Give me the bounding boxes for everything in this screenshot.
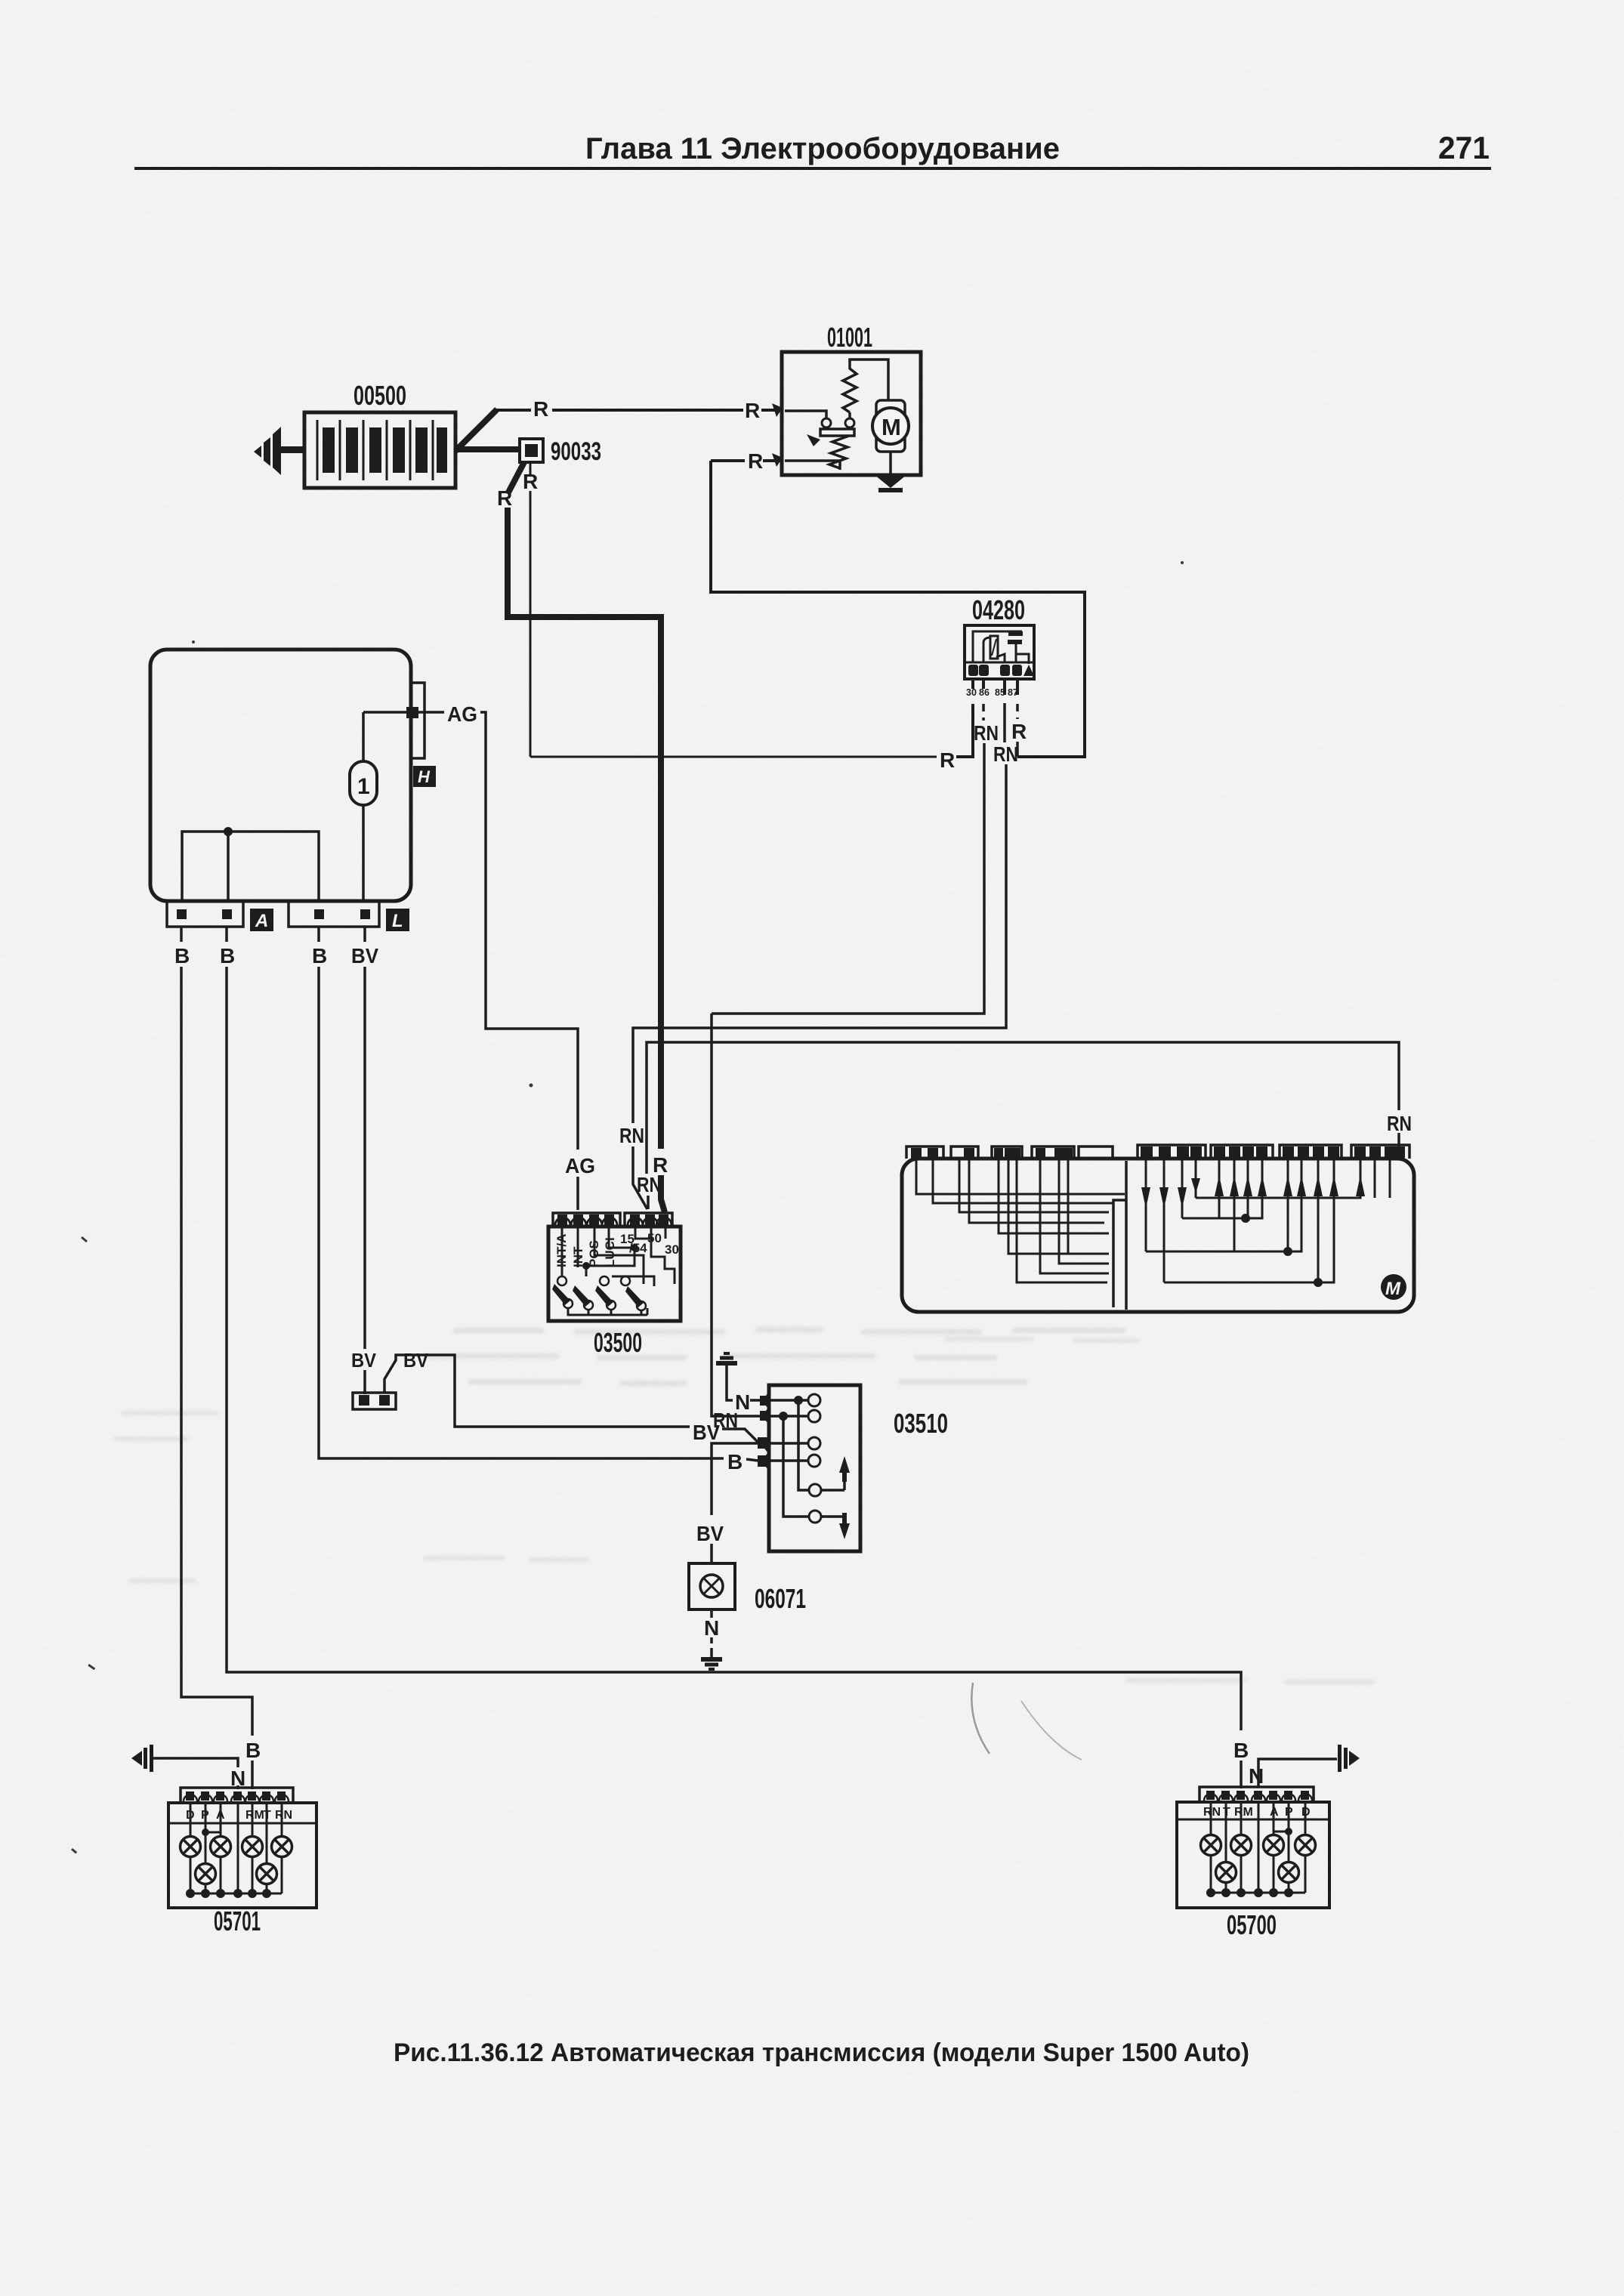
relay 04280 xyxy=(965,625,1034,679)
junction dot 03500 b xyxy=(631,1244,638,1251)
wire BV jumper to 03510 xyxy=(384,1355,690,1427)
svg-text:BV: BV xyxy=(351,944,378,967)
arrows of motor unit pins xyxy=(1141,1175,1365,1208)
armature arrow of 01001 xyxy=(807,434,820,446)
wire thin R from 90033 down xyxy=(529,463,532,474)
ground at 03510 xyxy=(716,1353,737,1373)
lamp T 05701 xyxy=(257,1864,277,1884)
wire B2 pin to label xyxy=(225,927,228,942)
junction dots of motor unit xyxy=(1241,1214,1250,1223)
svg-text:N: N xyxy=(735,1390,750,1414)
lamp D 05700 xyxy=(1295,1835,1316,1856)
pin 01001 upper terminal xyxy=(772,403,783,417)
svg-text:30: 30 xyxy=(966,687,977,698)
inner sub-box of control unit xyxy=(182,832,319,901)
wire ground to N 03510 xyxy=(727,1373,733,1400)
tab H on control unit xyxy=(411,683,425,758)
wire BV into connector xyxy=(363,1370,366,1394)
right half wiring of motor unit xyxy=(1146,1159,1390,1282)
wire motor to ground xyxy=(889,452,892,479)
wire thick diagonal 90033 to R bus xyxy=(508,462,524,492)
wire B2 down and across to 05700 xyxy=(227,967,1241,1730)
svg-text:B: B xyxy=(1233,1739,1249,1762)
connector strip 05701 xyxy=(181,1788,293,1803)
svg-text:AG: AG xyxy=(447,702,477,726)
svg-text:05700: 05700 xyxy=(1227,1909,1277,1940)
resistor bottom to contact xyxy=(848,412,851,418)
wire BV down to connector xyxy=(363,967,366,1349)
lamp P 05701 xyxy=(196,1864,216,1884)
wire RN pin86 of 04280 xyxy=(982,704,985,721)
svg-text:H: H xyxy=(418,767,431,786)
pin AG on box edge xyxy=(406,707,418,718)
svg-text:90033: 90033 xyxy=(551,437,601,466)
connector block 5 of motor unit xyxy=(1079,1146,1113,1159)
svg-text:L: L xyxy=(392,911,403,931)
svg-text:01001: 01001 xyxy=(827,322,872,353)
lamp RN 05700 xyxy=(1201,1835,1221,1856)
page header rule xyxy=(134,167,1491,170)
wire R pin87 of 04280 xyxy=(1016,704,1019,719)
wire diagonal 00500 to R feed xyxy=(455,409,497,451)
wire N below 06071 xyxy=(710,1609,713,1618)
svg-text:BV: BV xyxy=(693,1421,720,1444)
svg-text:87: 87 xyxy=(1008,687,1018,698)
wire AG down to 03500 xyxy=(480,712,578,1150)
left nest wiring of motor unit xyxy=(916,1159,1125,1282)
internal wiring 03500 xyxy=(562,1227,675,1286)
wire RN 03500 to motor unit xyxy=(647,1042,1399,1174)
stray scanner marks xyxy=(71,561,1184,1853)
resistor R inside 01001 xyxy=(843,369,857,412)
connector block 7 of motor unit xyxy=(1211,1145,1273,1159)
lamp D 05701 xyxy=(181,1837,201,1857)
lamp cluster 05700 xyxy=(1177,1802,1329,1908)
svg-text:B: B xyxy=(220,944,235,967)
lamp RM 05700 xyxy=(1231,1835,1252,1856)
svg-text:R: R xyxy=(745,399,760,422)
connector block 6 of motor unit xyxy=(1138,1145,1206,1159)
svg-text:06071: 06071 xyxy=(755,1583,806,1614)
wire R top to 01001 xyxy=(495,409,531,412)
wire R pin87 to loop xyxy=(1016,742,1019,757)
svg-text:85: 85 xyxy=(995,687,1005,698)
junction dot 05700 xyxy=(1285,1828,1292,1835)
indicator oval 1 xyxy=(350,761,377,805)
svg-text:RN: RN xyxy=(619,1124,644,1147)
motor M inside 01001 xyxy=(872,400,909,452)
svg-text:M: M xyxy=(881,414,901,440)
wire BV pin to label xyxy=(363,927,366,942)
bus dots 05701 xyxy=(186,1889,271,1898)
junction dot inner box xyxy=(224,827,233,836)
wire AG into 03500 pin INT xyxy=(576,1177,579,1210)
spring of 01001 xyxy=(829,436,849,468)
svg-text:B: B xyxy=(245,1739,261,1762)
wire oval to BV pin xyxy=(362,805,365,901)
relay coil 04280 xyxy=(990,636,998,659)
connector pads 03510 xyxy=(765,1394,769,1468)
contact circles 03510 xyxy=(808,1394,821,1523)
svg-text:AG: AG xyxy=(565,1154,595,1177)
wire B1 down to 05701 xyxy=(181,967,252,1736)
wire B1 pin to label xyxy=(180,927,183,942)
wire R pin30 of 04280 xyxy=(956,704,973,757)
connector strip left of 03500 xyxy=(553,1213,620,1227)
svg-text:RM: RM xyxy=(245,1809,264,1822)
svg-text:RN: RN xyxy=(1203,1806,1221,1819)
svg-text:86: 86 xyxy=(979,687,990,698)
wire resistor top loop xyxy=(850,360,888,400)
connector strip right of 03500 xyxy=(625,1213,672,1227)
junction dot 03500 xyxy=(582,1262,590,1270)
internal wiring 03510 xyxy=(770,1400,844,1528)
svg-text:1: 1 xyxy=(357,774,370,799)
svg-text:R: R xyxy=(533,397,548,421)
selector arrow 03510 xyxy=(839,1456,850,1539)
connector block 2 of motor unit xyxy=(951,1146,978,1159)
svg-text:R: R xyxy=(940,748,955,772)
connector block 1 of motor unit xyxy=(906,1146,943,1159)
wire BV diagonal into 03510 xyxy=(722,1429,758,1443)
connector strip 05700 xyxy=(1199,1787,1314,1802)
connector block 9 of motor unit xyxy=(1351,1145,1409,1159)
svg-text:RN: RN xyxy=(993,742,1018,766)
wire B into 05700 xyxy=(1240,1761,1243,1788)
transmission motor unit (right) xyxy=(902,1159,1414,1312)
bottom bus 03500 xyxy=(568,1308,647,1315)
wire N into 05701 xyxy=(236,1785,239,1789)
svg-text:A: A xyxy=(255,911,268,931)
wire B into 03510 xyxy=(746,1459,758,1461)
svg-text:271: 271 xyxy=(1438,130,1490,165)
lamp A 05700 xyxy=(1264,1835,1284,1856)
relay contact bars 04280 xyxy=(1008,631,1023,636)
wire N 05700 to ground xyxy=(1257,1767,1260,1787)
paper texture noise xyxy=(0,0,1,1)
svg-text:04280: 04280 xyxy=(972,594,1025,625)
wire RN into 03500 pin 50 xyxy=(633,1146,647,1209)
thermal breaker unit 01001 xyxy=(782,352,921,475)
wire oval to AG xyxy=(362,712,365,761)
svg-text:RM: RM xyxy=(1234,1806,1253,1819)
wire upper R to contact xyxy=(785,411,826,418)
divider of motor unit xyxy=(1113,1161,1126,1310)
motor symbol M of unit xyxy=(1381,1274,1406,1300)
svg-text:M: M xyxy=(1385,1279,1401,1299)
ghost text band 1 xyxy=(423,1327,1125,1386)
label H xyxy=(413,766,436,787)
pin 01001 lower terminal xyxy=(772,453,783,467)
svg-text:RN: RN xyxy=(637,1173,662,1196)
label A xyxy=(250,909,273,931)
wire RN stub into 03500 xyxy=(647,1196,650,1209)
junction dot 03510 N xyxy=(794,1396,803,1405)
scan crease curves xyxy=(971,1683,990,1754)
wire pin2 inner xyxy=(227,832,230,901)
svg-text:03510: 03510 xyxy=(894,1408,948,1439)
switch wedge 2 of 03500 xyxy=(573,1285,591,1307)
wire 01001 lower R to loop xyxy=(711,459,745,462)
wire thick R into 03500 pin 30 xyxy=(661,1175,665,1212)
svg-text:B: B xyxy=(312,944,327,967)
svg-text:B: B xyxy=(727,1450,743,1474)
junction dot 03510 RN xyxy=(779,1412,788,1421)
connector block 8 of motor unit xyxy=(1280,1145,1341,1159)
wire BV into 06071 xyxy=(710,1544,713,1563)
wire RN pin85 of 04280 xyxy=(1003,703,1006,742)
internal wires 05701 xyxy=(190,1803,282,1893)
wire RN pin86 down to 03510 branch xyxy=(712,743,984,1014)
svg-text:R: R xyxy=(497,486,512,510)
fuse box 00500 xyxy=(304,412,455,488)
wire B3 pin to label xyxy=(317,927,320,942)
lamp T 05700 xyxy=(1216,1862,1237,1883)
inline connector BV xyxy=(353,1393,396,1409)
wire ground to N 05701 xyxy=(153,1758,238,1767)
connector A of control unit xyxy=(167,901,243,927)
label L xyxy=(386,909,409,931)
switch wedge 3 of 03500 xyxy=(595,1285,613,1307)
wire AG from control unit xyxy=(363,711,444,714)
svg-text:N: N xyxy=(1249,1764,1264,1788)
lamp RN 05701 xyxy=(272,1837,292,1857)
wire RN into motor unit xyxy=(1397,1133,1400,1151)
wire thick R bus down and right xyxy=(508,508,661,1149)
wire B into 05701 xyxy=(251,1761,254,1789)
warning lamp 06071 xyxy=(689,1563,735,1609)
svg-text:00500: 00500 xyxy=(354,380,406,411)
connector 90033 xyxy=(520,439,543,462)
pads of 03500 xyxy=(557,1214,668,1226)
svg-text:R: R xyxy=(748,449,763,473)
connector L of control unit xyxy=(289,901,379,927)
wire RN pin85 down to 03500 xyxy=(633,764,1006,1123)
lamp cluster 05701 xyxy=(168,1803,316,1908)
svg-text:30: 30 xyxy=(665,1242,679,1257)
svg-text:BV: BV xyxy=(696,1522,724,1545)
ghost text band 2 xyxy=(113,1337,1375,1684)
svg-text:B: B xyxy=(174,944,190,967)
relay pads 04280 xyxy=(968,665,1034,695)
svg-text:RN: RN xyxy=(1387,1112,1412,1135)
connector block 3 of motor unit xyxy=(992,1146,1022,1159)
svg-text:03500: 03500 xyxy=(594,1327,642,1358)
divider line 05700 xyxy=(1177,1819,1329,1821)
battery feed symbol left of 00500 xyxy=(254,427,305,475)
wire B3 down to 03510 xyxy=(319,967,724,1458)
lamp RM 05701 xyxy=(242,1837,263,1857)
wire BV from 03510 to lamp 06071 xyxy=(712,1443,758,1515)
svg-text:R: R xyxy=(1011,720,1027,743)
svg-text:BV: BV xyxy=(351,1349,377,1372)
wire R from 90033 to relay pin30 xyxy=(530,756,937,758)
switch wedge 4 of 03500 xyxy=(625,1286,644,1307)
ground left of 05701 xyxy=(131,1745,153,1772)
wire RN branch to 03510 xyxy=(712,1014,760,1416)
ignition light switch 03500 xyxy=(548,1213,681,1321)
wire N to ground xyxy=(710,1637,713,1649)
svg-text:05701: 05701 xyxy=(214,1906,261,1936)
bus dots 05700 xyxy=(1206,1888,1293,1897)
junction dot 05701 xyxy=(202,1828,209,1836)
contact circles of 01001 switch xyxy=(822,418,831,427)
ground right of 05700 xyxy=(1338,1745,1360,1772)
armature bar of 01001 xyxy=(820,429,854,436)
ground below 06071 xyxy=(701,1649,722,1669)
wire N into 03510 xyxy=(750,1399,760,1402)
svg-text:N: N xyxy=(704,1616,719,1640)
inhibitor switch 03510 xyxy=(769,1385,860,1551)
svg-text:Глава 11 Электрооборудование: Глава 11 Электрооборудование xyxy=(585,132,1060,165)
internal wires 05700 xyxy=(1211,1802,1305,1893)
svg-text:RN: RN xyxy=(275,1809,292,1822)
switch wedge 1 of 03500 xyxy=(552,1284,570,1305)
wire thick 00500 to 90033 xyxy=(455,446,522,452)
ground below 01001 xyxy=(875,475,906,492)
divider line 05701 xyxy=(168,1822,316,1825)
contact circles 03500 xyxy=(557,1276,630,1285)
svg-text:R: R xyxy=(523,470,538,493)
wire lower R into 01001 xyxy=(785,459,840,462)
svg-text:RN: RN xyxy=(974,721,999,745)
svg-text:BV: BV xyxy=(403,1349,429,1372)
lamp P 05700 xyxy=(1279,1862,1299,1883)
control unit box (left) xyxy=(150,650,411,901)
wire loop R to relay 87 xyxy=(711,461,1085,757)
svg-text:Рис.11.36.12 Автоматическая тр: Рис.11.36.12 Автоматическая трансмиссия … xyxy=(394,2038,1249,2067)
lamp A 05701 xyxy=(211,1837,231,1857)
connector block 4 of motor unit xyxy=(1032,1146,1074,1159)
